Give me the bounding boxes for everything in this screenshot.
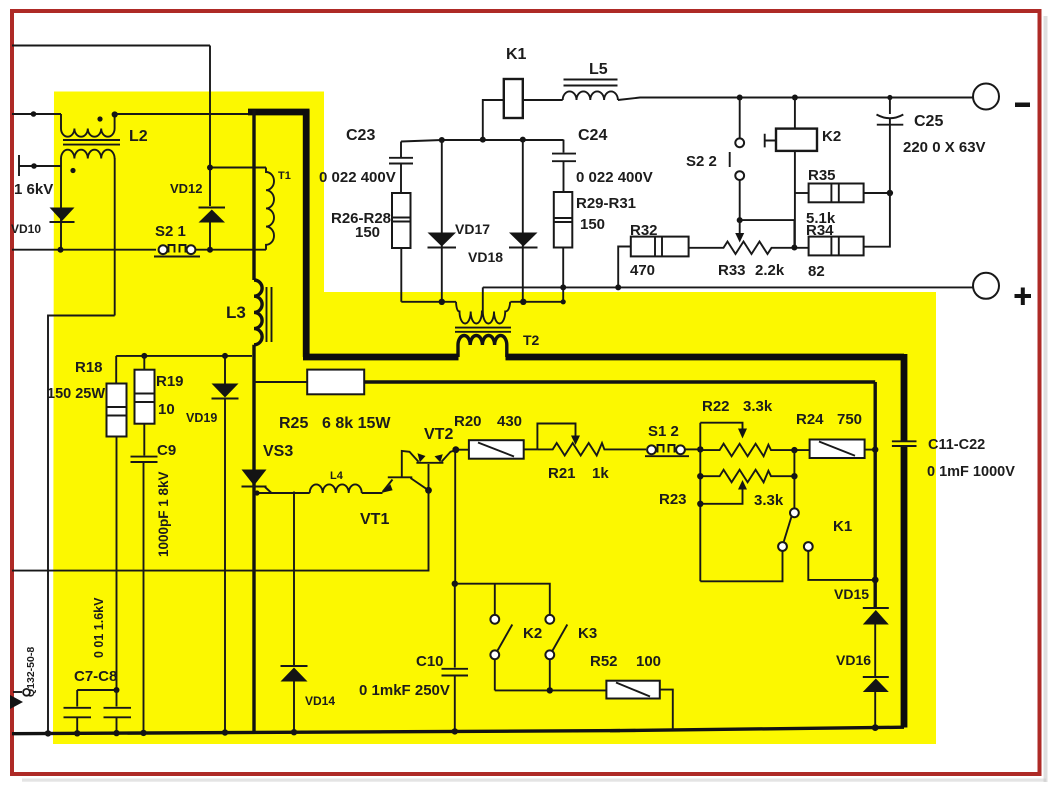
svg-text:C11-C22: C11-C22: [928, 437, 985, 453]
wire: S2.2 node over to R34 branch: [740, 220, 795, 247]
svg-text:6 8k 15W: 6 8k 15W: [322, 415, 391, 432]
svg-text:VD14: VD14: [305, 694, 335, 708]
resistors R26-R28: [392, 193, 411, 248]
svg-text:VT2: VT2: [424, 426, 453, 443]
wire: S2.1 to T1 lower rail: [195, 249, 266, 251]
svg-text:K1: K1: [506, 46, 527, 63]
diode VD16: [863, 676, 889, 678]
junction K2 tap: [792, 95, 798, 101]
switch S2.1: [154, 256, 200, 258]
diode VD10: [50, 208, 75, 222]
wire: rectifier link rail left: [401, 301, 456, 303]
diode VD14: [293, 492, 295, 667]
capacitor C24: [563, 140, 565, 153]
junction R24/right vertical: [872, 446, 878, 452]
wire: R32 left leg to plus rail: [618, 247, 631, 288]
svg-text:VS3: VS3: [263, 443, 293, 460]
diode VD19: [224, 356, 226, 384]
svg-text:R23: R23: [659, 491, 687, 508]
junction bus/left branch: [45, 730, 51, 736]
junction C10 top: [452, 581, 458, 587]
svg-text:S2 1: S2 1: [155, 223, 186, 240]
potentiometer R33: [718, 242, 777, 255]
svg-text:T1: T1: [278, 170, 291, 182]
wire: R25 feed line: [254, 381, 307, 383]
junction R33/R34/S2.2 node: [791, 245, 797, 251]
inductor L3 core: [267, 287, 272, 342]
resistor R32: [631, 237, 689, 257]
svg-text:K3: K3: [578, 625, 597, 642]
svg-text:R35: R35: [808, 167, 836, 184]
wire: R33 left to R32: [689, 247, 718, 249]
potentiometer R23: [700, 470, 794, 483]
transformer L2 secondary winding: [61, 150, 115, 159]
transformer T2 core: [455, 328, 511, 332]
svg-text:T2: T2: [523, 332, 540, 348]
wire: gate line to L4: [254, 492, 310, 494]
svg-text:L3: L3: [226, 303, 246, 322]
wire: from L2 to T1 bus: [115, 113, 250, 115]
svg-text:C23: C23: [346, 127, 375, 144]
svg-text:K2: K2: [822, 128, 841, 145]
wire: R21 to S1.2: [618, 448, 646, 450]
junction T2 right end rise: [561, 299, 566, 304]
resistor R20: [469, 440, 524, 459]
link vertical R22 row to R23 row: [793, 450, 795, 476]
svg-text:S1 2: S1 2: [648, 423, 679, 440]
wire: R25 right long rail: [364, 380, 875, 383]
junction R19 top: [141, 353, 147, 359]
svg-text:100: 100: [636, 653, 661, 670]
svg-text:VD10: VD10: [11, 222, 41, 236]
wire: top distribution rail C23..C24: [401, 140, 564, 142]
wire: R29-R31 bottom drop: [562, 248, 564, 302]
svg-text:1k: 1k: [592, 465, 609, 482]
svg-text:VD15: VD15: [834, 586, 869, 602]
wire: negative output rail: [618, 98, 973, 101]
transformer L2 primary winding: [61, 114, 115, 137]
junction VD12/S2.1: [207, 247, 213, 253]
svg-text:L5: L5: [589, 61, 608, 78]
relay contact K2: [490, 615, 499, 624]
svg-text:VT1: VT1: [360, 511, 389, 528]
svg-text:150: 150: [580, 216, 605, 233]
junction R23 left: [697, 473, 703, 479]
junction S2.2 tap: [737, 95, 743, 101]
junction plus rail / R32: [615, 284, 621, 290]
svg-text:C7-C8: C7-C8: [74, 668, 117, 685]
svg-text:R52: R52: [590, 653, 618, 670]
resistor R18: [115, 356, 117, 384]
wire: mains input line to L2: [12, 113, 61, 115]
wire: L4 to VT1 emitter: [362, 492, 383, 494]
svg-text:0 1mkF 250V: 0 1mkF 250V: [359, 682, 450, 699]
resistor R35: [795, 192, 809, 194]
switch S1.2: [645, 455, 689, 457]
L2 terminal dot: [112, 111, 118, 117]
svg-text:K1: K1: [833, 518, 852, 535]
svg-text:0 1mF 1000V: 0 1mF 1000V: [927, 464, 1015, 480]
left link vertical R22/R23/K1: [699, 423, 701, 582]
wire: spark gap to L2 leg: [19, 165, 61, 167]
L2 phasing dot primary: [97, 116, 102, 121]
relay contact K3: [545, 615, 554, 624]
relay contact K1: [793, 476, 795, 508]
svg-text:R24: R24: [796, 411, 824, 428]
svg-text:R33: R33: [718, 262, 746, 279]
relay coil K1: [483, 100, 504, 140]
svg-text:L2: L2: [129, 128, 148, 145]
thyristor VS3: [242, 470, 267, 486]
transistor VT1: [383, 480, 393, 493]
thick bus: T2 secondary left to T1 loop: [303, 354, 459, 361]
junction plus rail / winding right: [560, 284, 566, 290]
output terminal minus: [973, 84, 999, 110]
junction S2.2 bottom node: [737, 217, 743, 223]
highlighted (marker) region: [53, 92, 936, 745]
transformer L2 core: [63, 140, 120, 145]
resistor R25: [307, 370, 364, 395]
svg-text:C24: C24: [578, 127, 607, 144]
svg-text:R21: R21: [548, 465, 576, 482]
resistor R52: [606, 681, 659, 699]
thick bus: C11 branch vertical: [901, 354, 908, 441]
svg-text:430: 430: [497, 413, 522, 430]
junction R22 left node: [697, 446, 703, 452]
capacitor C9: [131, 457, 158, 462]
wire: R26-R28 bottom drop: [400, 248, 402, 302]
junction VT1 collector / VT2 base: [425, 487, 432, 494]
transistor VT2: [428, 464, 430, 490]
junction VD17 top: [439, 137, 445, 143]
inductor L4: [310, 484, 362, 493]
svg-text:R19: R19: [156, 373, 184, 390]
inductor L5 core: [564, 80, 618, 86]
diode VD17 with feed wire: [441, 140, 443, 302]
svg-text:150 25W: 150 25W: [47, 386, 105, 402]
svg-text:R22: R22: [702, 398, 730, 415]
svg-text:470: 470: [630, 262, 655, 279]
junction R23 right: [791, 473, 797, 479]
junction K1 coil tap: [480, 137, 486, 143]
junction bus/C7: [74, 730, 80, 736]
inductor L3 winding: [254, 280, 262, 345]
junction VD19 top: [222, 353, 228, 359]
wire: contacts to R52: [495, 689, 607, 691]
svg-text:S2 2: S2 2: [686, 153, 717, 170]
bottom bus wire: [12, 731, 620, 734]
junction K3 bottom: [547, 687, 553, 693]
resistor R24: [810, 440, 865, 459]
svg-text:R29-R31: R29-R31: [576, 195, 636, 212]
svg-text:3.3k: 3.3k: [754, 492, 784, 509]
potentiometer R22: [700, 444, 809, 457]
junction bus/C8: [113, 730, 119, 736]
wire: R20 to R21: [524, 448, 538, 450]
junction K1 contact / diode branch: [872, 577, 879, 584]
junction VT2 collector / R20: [452, 446, 459, 453]
junction bus/C9: [140, 730, 146, 736]
junction R35/C25: [887, 190, 893, 196]
junction R23 wiper node: [697, 501, 703, 507]
junction VD16/bus: [872, 724, 879, 731]
svg-text:C10: C10: [416, 653, 444, 670]
wire: contact feed K2/K3: [455, 584, 550, 615]
svg-text:C25: C25: [914, 113, 943, 130]
wire: R18/R19/VD19 top rail: [116, 355, 252, 357]
junction bus/VD19: [222, 729, 228, 735]
junction C25 tap: [887, 95, 892, 100]
svg-text:2.2k: 2.2k: [755, 262, 785, 279]
svg-text:R18: R18: [75, 359, 103, 376]
relay coil K2: [794, 98, 796, 129]
transformer T2 primary winding (centre-tapped): [456, 287, 510, 323]
svg-text:1 6kV: 1 6kV: [14, 181, 53, 198]
svg-text:VD19: VD19: [186, 411, 217, 425]
wire: S2.1 branch down-left: [48, 316, 115, 734]
potentiometer R21: [537, 443, 618, 456]
wire: VD12 node to T1 top: [210, 167, 266, 169]
potentiometer R33 wiper arrow: [739, 220, 741, 234]
svg-text:10: 10: [158, 401, 175, 418]
wire: S1.2 to R22 node: [685, 448, 700, 450]
junction VD10 rail: [58, 247, 64, 253]
junction VD18 bottom: [520, 299, 526, 305]
wire: vertical drop to VD12: [209, 46, 211, 207]
svg-text:K2: K2: [523, 625, 542, 642]
wire: plus output rail: [483, 286, 973, 288]
wire: right feed vertical: [874, 382, 877, 609]
wire: R33 right to R34: [777, 247, 809, 249]
svg-text:VD17: VD17: [455, 221, 490, 237]
thick bus: right vertical of T1 loop: [303, 110, 310, 357]
wire: VT2 emitter return line: [12, 490, 429, 570]
wire: rectifier link rail right: [510, 301, 563, 303]
thick bus: T1 top horizontal: [248, 109, 310, 116]
svg-text:R25: R25: [279, 415, 308, 432]
capacitor C23: [400, 142, 402, 158]
switch S2.2: [739, 98, 741, 139]
potentiometer R21 wiper loop: [537, 424, 575, 450]
transformer T1 primary winding: [266, 168, 274, 250]
capacitor C8: [116, 690, 118, 707]
transformer T2 secondary winding: [458, 336, 507, 358]
svg-text:220 0 X 63V: 220 0 X 63V: [903, 139, 986, 156]
wire: L2 secondary left leg down to S2.1 rail: [60, 158, 62, 250]
svg-text:VD12: VD12: [170, 181, 203, 196]
resistor R34: [809, 237, 864, 256]
potentiometer R22 wiper loop: [700, 423, 742, 430]
svg-text:82: 82: [808, 263, 825, 280]
svg-text:VD16: VD16: [836, 652, 871, 668]
potentiometer R23 wiper arrow (up): [738, 480, 747, 490]
diode VD12: [199, 207, 226, 209]
resistors R29-R31: [554, 192, 573, 248]
junction bus/VD14: [291, 729, 297, 735]
T1/L3 center limb: [252, 110, 255, 280]
wire: L2 secondary right leg down: [114, 158, 116, 316]
capacitor C25 (electrolytic): [889, 98, 891, 115]
capacitor C11-C22: [892, 441, 917, 446]
svg-text:R34: R34: [806, 222, 834, 239]
svg-text:0 022 400V: 0 022 400V: [576, 169, 653, 186]
L3 lower limb down to bottom bus: [252, 345, 255, 733]
svg-text:L4: L4: [330, 470, 344, 482]
wire: VT2 collector drop to C10: [454, 450, 456, 584]
diode VD18 with feed wire: [522, 140, 524, 302]
junction VD12 anode tap: [207, 165, 213, 171]
wire: bottom rail from frame to S2.1: [12, 249, 156, 251]
svg-text:R20: R20: [454, 413, 482, 430]
wire: top-left horizontal from left frame: [12, 45, 210, 47]
thick bus: T2 secondary right to C11 branch: [506, 354, 905, 361]
svg-text:3.3k: 3.3k: [743, 398, 773, 415]
junction R22/R24 to R23: [791, 447, 797, 453]
junction on input line: [31, 111, 37, 117]
capacitor C7: [76, 690, 78, 707]
L2 phasing dot secondary: [70, 168, 75, 173]
spark-gap electrode bar 1.6kV: [18, 155, 20, 176]
svg-text:C9: C9: [157, 442, 176, 459]
inductor L5: [563, 91, 618, 100]
svg-text:R32: R32: [630, 222, 658, 239]
terminal stub with circle at frame: [13, 691, 22, 693]
svg-text:750: 750: [837, 411, 862, 428]
resistor R19: [143, 356, 145, 370]
junction VD18 top: [520, 137, 526, 143]
svg-text:VD18: VD18: [468, 249, 503, 265]
svg-text:0 022 400V: 0 022 400V: [319, 169, 396, 186]
output terminal plus: [973, 273, 999, 299]
svg-text:0 01 1.6kV: 0 01 1.6kV: [92, 597, 106, 658]
capacitors C7-C8 link wire: [77, 689, 116, 691]
pointer arrow on frame: [10, 695, 23, 709]
junction on spark-gap wire: [31, 163, 37, 169]
capacitor C10: [454, 584, 456, 668]
svg-text:150: 150: [355, 224, 380, 241]
diode VD15: [863, 607, 889, 609]
svg-text:1000pF 1 8kV: 1000pF 1 8kV: [156, 471, 171, 557]
junction VD17 bottom: [439, 299, 445, 305]
